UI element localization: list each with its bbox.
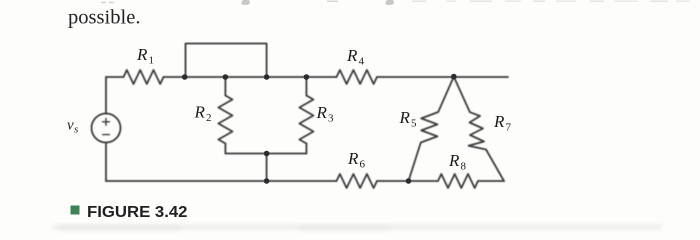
svg-text:possible.: possible. xyxy=(68,7,141,29)
svg-text:v: v xyxy=(67,118,74,134)
svg-text:1: 1 xyxy=(149,55,155,67)
svg-text:R: R xyxy=(448,151,460,170)
svg-text:R: R xyxy=(194,103,206,122)
svg-text:R: R xyxy=(346,46,358,65)
svg-text:5: 5 xyxy=(411,118,417,130)
svg-text:FIGURE 3.42: FIGURE 3.42 xyxy=(87,204,188,221)
svg-text:R: R xyxy=(316,103,328,122)
svg-text:7: 7 xyxy=(506,122,512,134)
svg-text:3: 3 xyxy=(328,113,334,125)
svg-text:6: 6 xyxy=(360,159,366,171)
svg-text:R: R xyxy=(347,149,359,168)
svg-text:R: R xyxy=(136,45,148,64)
svg-text:8: 8 xyxy=(461,161,467,173)
svg-text:R: R xyxy=(493,112,505,131)
svg-text:2: 2 xyxy=(206,112,212,124)
svg-text:R: R xyxy=(399,108,411,127)
svg-text:s: s xyxy=(74,124,78,136)
svg-text:4: 4 xyxy=(359,56,365,68)
